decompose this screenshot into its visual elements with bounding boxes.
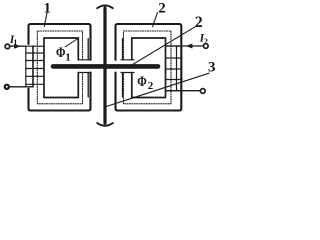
left core pole piece inner edge upper [87,39,89,60]
armature vertical bar [103,8,106,123]
leader for label 3 [107,73,209,106]
winding W2 turns on right leg [166,46,183,91]
leader for label 2 (short) [153,13,158,27]
svg-text:2: 2 [195,14,203,31]
wire input I2 [166,45,204,47]
svg-text:1: 1 [44,0,52,16]
right core air-gap lower edge [121,72,134,74]
winding W1 body (covers core edge) [26,45,32,88]
left core air-gap upper edge [78,59,91,61]
leader for label 2 (long) [131,25,198,65]
right core air-gap upper edge [121,59,134,61]
svg-text:2: 2 [204,37,208,46]
left core outer rectangle (gap in right leg) [29,24,91,111]
right core pole piece inner edge lower [122,73,124,98]
left core flux path Phi1 (dotted) [37,31,82,104]
svg-text:3: 3 [208,60,216,76]
wire bottom-left [9,86,33,88]
right core flux path Phi2 (dotted) [124,31,172,104]
arrow I1 [14,44,21,49]
wire input I1 [10,45,26,47]
terminal top-right [204,44,209,49]
pivot arc top [97,5,113,8]
wire bottom-right [166,90,201,92]
arrow I2 [186,44,193,49]
svg-text:2: 2 [158,0,166,16]
winding W1 turns on left leg [26,46,44,87]
crossbar [53,64,158,69]
svg-text:Φ: Φ [56,45,66,61]
right core window rectangle (gap in left side) [132,38,166,98]
left core window rectangle (gap in right side) [44,38,78,98]
terminal bottom-left [5,85,9,89]
svg-text:1: 1 [13,38,17,47]
right core pole piece inner edge upper [122,39,124,60]
svg-text:Φ: Φ [137,74,147,90]
leader for label 1 [44,13,47,27]
left core air-gap lower edge [78,72,91,74]
svg-text:1: 1 [65,52,71,64]
pivot arc bottom [97,123,113,126]
svg-text:2: 2 [148,80,154,92]
left core pole piece inner edge lower [87,73,89,98]
right core outer rectangle (gap in left leg) [116,24,182,111]
leader for Phi1 [65,39,77,47]
terminal top-left [5,44,10,49]
terminal bottom-right [200,89,205,94]
